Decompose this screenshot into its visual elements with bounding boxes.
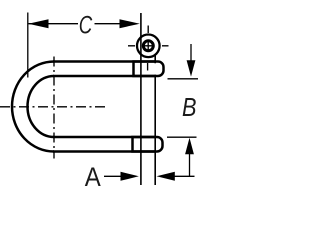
dimension C line: [29, 23, 121, 25]
dimension A right arrowhead: [157, 172, 175, 181]
dimension C extension line left: [27, 13, 29, 78]
dimension B bottom extension line: [167, 136, 197, 138]
bottom bar right end cap: [133, 137, 163, 152]
dimension A line right: [174, 175, 195, 177]
top bar top edge: [53, 60, 156, 63]
dimension A left arrowhead: [121, 172, 139, 181]
bottom bar bottom edge: [53, 150, 155, 153]
svg-text:A: A: [85, 162, 101, 192]
shackle bow outer curve: [12, 62, 54, 152]
bottom bar top edge: [53, 136, 155, 139]
top bar bottom edge: [53, 75, 156, 78]
dimension C right arrowhead: [120, 19, 140, 28]
dimension A line left: [104, 175, 121, 177]
pin head inner ring: [143, 41, 153, 51]
bow vertical centerline: [53, 57, 55, 159]
pin shank left edge / C and A extension line: [140, 13, 142, 185]
pin head outer circle: [137, 35, 160, 58]
dimension B up arrow stem: [189, 154, 191, 177]
top bar right end cap: [134, 62, 164, 77]
dimension B up arrowhead: [185, 138, 194, 154]
dimension C left arrowhead: [28, 19, 48, 28]
pin horizontal centerline: [128, 45, 169, 47]
dimension B down arrowhead: [187, 60, 196, 76]
pin vertical centerline: [147, 26, 150, 71]
bow horizontal centerline: [0, 106, 105, 108]
svg-text:C: C: [79, 11, 93, 39]
shackle bow inner curve: [28, 76, 54, 137]
dimension B top extension line: [168, 78, 199, 80]
dimension B down arrow stem: [190, 44, 192, 62]
svg-text:B: B: [182, 94, 197, 122]
pin shank right edge / A extension line: [154, 55, 156, 185]
